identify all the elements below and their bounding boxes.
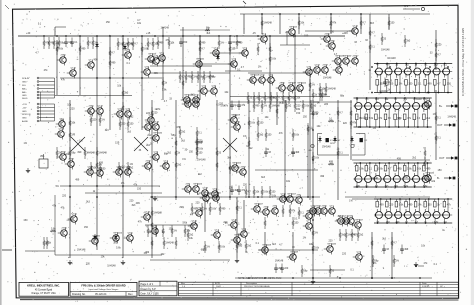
- node N8: [409, 92, 411, 94]
- capacitor C6: [280, 264, 289, 274]
- svg-text:Q136: Q136: [235, 122, 241, 124]
- wire: [150, 65, 212, 67]
- resistor R161: [109, 57, 116, 69]
- wire bus: [354, 105, 432, 107]
- label: [388, 89, 391, 92]
- resistor R58: [258, 92, 265, 104]
- resistor R136: [321, 89, 328, 101]
- svg-text:1N4148: 1N4148: [197, 158, 206, 161]
- svg-text:BAL-: BAL-: [22, 91, 27, 94]
- label: [413, 98, 422, 101]
- resistor R70: [196, 143, 204, 155]
- svg-text:499: 499: [404, 248, 409, 251]
- transistor Q52: [150, 122, 160, 133]
- wire: [141, 36, 143, 130]
- svg-text:5.6k: 5.6k: [369, 117, 374, 120]
- resistor R111: [43, 237, 50, 249]
- resistor R195: [292, 217, 299, 229]
- svg-text:150: 150: [304, 35, 309, 38]
- label: [71, 108, 76, 111]
- resistor R117: [328, 118, 334, 123]
- label: [442, 229, 445, 232]
- resistor R164: [141, 43, 149, 55]
- svg-text:150: 150: [271, 191, 276, 194]
- wire: [229, 36, 231, 200]
- resistor R56: [247, 92, 253, 104]
- svg-text:220: 220: [92, 119, 97, 122]
- resistor R34: [48, 37, 55, 49]
- wire: [243, 14, 245, 34]
- svg-text:150: 150: [137, 187, 142, 190]
- node N18: [359, 126, 361, 128]
- svg-text:150: 150: [404, 176, 409, 179]
- resistor R92: [179, 126, 186, 138]
- wire: [280, 44, 310, 46]
- label: [77, 249, 86, 252]
- svg-text:499: 499: [193, 208, 198, 211]
- wire: [199, 63, 234, 65]
- svg-text:5.6k: 5.6k: [211, 208, 216, 211]
- terminal dot: [415, 265, 424, 267]
- capacitor C4: [228, 38, 241, 48]
- node N64: [447, 198, 449, 200]
- label: [44, 69, 49, 72]
- resistor R128: [175, 137, 177, 149]
- wire: [258, 249, 318, 251]
- svg-text:1N4148: 1N4148: [271, 105, 280, 108]
- node N21: [375, 97, 377, 99]
- resistor R121: [196, 127, 203, 139]
- wire: [405, 163, 409, 187]
- wire: [424, 98, 428, 127]
- node N32: [427, 126, 429, 128]
- transistor Q128: [404, 212, 411, 219]
- transistor Q9: [193, 58, 205, 70]
- node N29: [414, 97, 416, 99]
- transistor Q120: [384, 176, 391, 183]
- svg-text:5/18/95: 5/18/95: [422, 286, 430, 288]
- svg-text:220: 220: [62, 195, 67, 198]
- node N46: [417, 162, 419, 164]
- wire crossover: [134, 137, 148, 151]
- svg-text:220: 220: [243, 184, 248, 187]
- node N30: [417, 126, 419, 128]
- label: [292, 88, 297, 91]
- svg-text:499: 499: [398, 168, 403, 171]
- wire: [279, 14, 281, 34]
- resistor R132: [269, 43, 271, 55]
- resistor R173: [151, 107, 158, 119]
- svg-text:MPSA27: MPSA27: [255, 203, 264, 206]
- resistor R108: [357, 229, 364, 241]
- wire: [366, 163, 370, 187]
- transistor Q97: [335, 216, 345, 227]
- wire: [369, 14, 371, 90]
- label: [386, 221, 391, 224]
- transistor Q36: [55, 129, 65, 140]
- label: [94, 59, 99, 62]
- transistor Q103: [395, 68, 402, 75]
- svg-text:5.6k: 5.6k: [399, 204, 404, 207]
- svg-text:Description: Description: [246, 282, 258, 285]
- resistor R23: [413, 163, 422, 171]
- resistor R98: [218, 241, 226, 253]
- transistor Q62: [237, 167, 247, 178]
- svg-text:Q124: Q124: [353, 26, 359, 28]
- label: [206, 200, 209, 203]
- node N106: [391, 277, 393, 279]
- node N5: [396, 63, 398, 65]
- node N74: [269, 35, 271, 37]
- label: [130, 116, 135, 119]
- resistor R13: [394, 114, 402, 127]
- node N130: [371, 277, 373, 279]
- label: [415, 63, 418, 66]
- transistor Q118: [365, 176, 372, 183]
- transistor Q76: [260, 207, 270, 218]
- label: [191, 94, 196, 97]
- transistor Q42: [65, 159, 75, 170]
- node N101: [264, 277, 266, 279]
- svg-text:3k3: 3k3: [105, 129, 110, 132]
- svg-text:150: 150: [68, 219, 73, 222]
- svg-text:68p: 68p: [71, 152, 76, 155]
- label: [413, 185, 416, 188]
- node N45: [414, 186, 416, 188]
- node N14: [438, 92, 440, 94]
- label: [225, 222, 228, 225]
- svg-text:1N4148: 1N4148: [275, 260, 284, 263]
- resistor R177: [369, 27, 376, 39]
- svg-text:150: 150: [183, 41, 188, 44]
- wire: [435, 90, 437, 160]
- wire: [357, 163, 361, 187]
- label: [146, 112, 151, 115]
- capacitor C12: [230, 101, 237, 111]
- node N126: [298, 13, 300, 15]
- svg-text:SPKR IN: SPKR IN: [22, 114, 31, 116]
- wire: [204, 200, 206, 232]
- label: [196, 201, 201, 204]
- resistor R37: [87, 37, 94, 49]
- label: [65, 153, 70, 156]
- svg-text:RCA IN: RCA IN: [22, 77, 29, 80]
- wire bus: [354, 162, 432, 164]
- transistor Q11: [239, 48, 249, 59]
- resistor R88: [90, 162, 97, 174]
- label: [216, 103, 220, 106]
- transistor Q60: [228, 114, 241, 126]
- svg-text:499: 499: [111, 62, 116, 65]
- capacitor C8: [400, 245, 409, 255]
- node N93: [151, 196, 153, 198]
- wire: [444, 199, 448, 223]
- node N23: [385, 97, 387, 99]
- svg-text:499: 499: [296, 108, 301, 111]
- diode D7: [93, 234, 96, 241]
- svg-text:5.6k: 5.6k: [162, 88, 167, 91]
- svg-text:2k2: 2k2: [177, 164, 182, 167]
- resistor R145: [312, 242, 320, 254]
- resistor R160: [109, 47, 116, 59]
- svg-text:499: 499: [320, 175, 325, 178]
- node N9: [415, 63, 417, 65]
- svg-text:499: 499: [81, 48, 86, 51]
- label: [303, 115, 308, 118]
- svg-text:5.6k: 5.6k: [51, 228, 56, 231]
- svg-text:3k3: 3k3: [181, 140, 186, 143]
- node N122: [284, 196, 286, 198]
- svg-text:1N4148: 1N4148: [381, 48, 390, 51]
- svg-text:5.6k: 5.6k: [198, 148, 203, 151]
- svg-text:150: 150: [447, 83, 452, 86]
- label: [423, 185, 428, 188]
- resistor R6: [424, 80, 432, 93]
- wire: [405, 98, 409, 127]
- transistor Q35: [56, 119, 66, 130]
- transistor Q79: [228, 220, 238, 231]
- svg-text:SIG: SIG: [22, 85, 26, 87]
- svg-text:3k3: 3k3: [191, 94, 196, 97]
- label: [298, 90, 301, 93]
- wire: [357, 98, 361, 127]
- label: [143, 252, 147, 255]
- resistor R69: [196, 135, 203, 147]
- svg-text:2k2: 2k2: [412, 157, 417, 160]
- resistor R40: [122, 38, 134, 50]
- svg-text:499: 499: [94, 59, 99, 62]
- capacitor C2: [70, 38, 78, 48]
- label: [137, 187, 142, 190]
- label: [93, 190, 96, 193]
- resistor R27: [395, 199, 404, 207]
- transistor Q90: [353, 252, 363, 263]
- svg-text:MPSA8: MPSA8: [291, 251, 299, 254]
- wire: [25, 250, 55, 252]
- node N62: [438, 198, 440, 200]
- transistor Q75: [251, 203, 264, 215]
- svg-text:220: 220: [65, 153, 70, 156]
- node N49: [377, 222, 379, 224]
- resistor R191: [282, 205, 284, 217]
- resistor R26: [386, 199, 394, 207]
- label: [55, 185, 59, 188]
- capacitor C5: [274, 264, 283, 274]
- label: [122, 166, 126, 169]
- transistor Q61: [231, 122, 241, 133]
- svg-text:Drawn by S.P: Drawn by S.P: [141, 288, 157, 291]
- svg-text:LED: LED: [308, 150, 312, 152]
- node N31: [423, 97, 425, 99]
- label: [107, 264, 116, 267]
- connector pin J10: [22, 110, 55, 113]
- svg-text:150: 150: [259, 122, 264, 125]
- svg-text:220: 220: [437, 44, 442, 47]
- node N58: [418, 198, 420, 200]
- label: [279, 244, 283, 247]
- transistor Q73: [284, 193, 297, 205]
- resistor R75: [269, 100, 281, 112]
- wire: [377, 199, 381, 223]
- label: [195, 141, 204, 144]
- svg-text:MPSA7: MPSA7: [289, 82, 297, 85]
- svg-text:150: 150: [267, 134, 272, 137]
- label: [385, 185, 390, 188]
- node N117: [96, 185, 98, 187]
- resistor R142: [312, 107, 319, 119]
- wire: [150, 196, 320, 198]
- svg-text:MPSA53: MPSA53: [233, 162, 242, 165]
- label: [249, 80, 254, 83]
- label: [349, 200, 353, 203]
- node N57: [415, 222, 417, 224]
- svg-text:5.6k: 5.6k: [220, 246, 225, 249]
- resistor R4: [405, 80, 413, 93]
- transistor Q49: [145, 115, 155, 126]
- wire: [69, 100, 71, 258]
- resistor R140: [248, 137, 250, 149]
- svg-text:MPSA19: MPSA19: [251, 74, 260, 77]
- transistor Q69: [110, 232, 123, 244]
- transistor Q18: [276, 83, 286, 94]
- resistor R68: [325, 83, 337, 95]
- resistor R35: [53, 37, 60, 49]
- svg-text:AGND: AGND: [22, 120, 29, 123]
- wire: [312, 100, 314, 278]
- resistor R171: [122, 87, 129, 99]
- svg-text:Rev.: Rev.: [128, 293, 133, 296]
- label: [376, 63, 380, 66]
- svg-text:5.6k: 5.6k: [58, 48, 63, 51]
- svg-text:68p: 68p: [303, 270, 308, 273]
- capacitor C9: [383, 78, 390, 88]
- node N63: [444, 222, 446, 224]
- label: [354, 41, 357, 44]
- revision table: [179, 282, 459, 296]
- resistor R21: [394, 163, 402, 171]
- svg-text:GND: GND: [22, 95, 27, 97]
- svg-text:499: 499: [77, 151, 82, 154]
- svg-text:2N34: 2N34: [353, 56, 359, 58]
- transistor Q38: [94, 106, 104, 117]
- transistor Q126: [385, 212, 392, 219]
- svg-text:5.6k: 5.6k: [359, 168, 364, 171]
- transistor Q10: [210, 48, 220, 59]
- svg-text:150: 150: [198, 152, 203, 155]
- node N72: [199, 35, 201, 37]
- node N39: [385, 186, 387, 188]
- resistor R10: [365, 114, 374, 127]
- wire: [150, 259, 230, 261]
- label: [397, 117, 402, 120]
- wire: [162, 27, 164, 100]
- svg-text:+40: +40: [26, 32, 31, 35]
- wire bus: [354, 126, 432, 128]
- transistor Q5: [141, 67, 151, 78]
- label: [137, 19, 141, 22]
- wire: [151, 100, 153, 258]
- wire: [406, 199, 410, 223]
- resistor R15: [413, 114, 421, 127]
- wire: [248, 72, 310, 74]
- wire: [396, 64, 400, 93]
- label: [376, 221, 379, 224]
- svg-text:220: 220: [223, 221, 228, 224]
- transistor Q22: [198, 86, 208, 97]
- label: [35, 52, 39, 55]
- resistor R33: [43, 37, 50, 49]
- transistor Q92: [422, 172, 435, 184]
- label: [265, 116, 270, 119]
- wire bus: [374, 198, 452, 200]
- svg-text:Date JULY 1995: Date JULY 1995: [141, 293, 160, 296]
- svg-text:Q123: Q123: [145, 212, 151, 214]
- wire: [216, 100, 218, 200]
- label: [431, 180, 436, 183]
- label: [394, 98, 397, 101]
- node N22: [379, 126, 381, 128]
- ground: [121, 260, 125, 265]
- connector pin J7: [22, 97, 55, 100]
- resistor R67: [319, 83, 326, 95]
- connector pin J2: [22, 81, 55, 84]
- transistor Q109: [355, 103, 362, 110]
- transistor Q68: [89, 235, 101, 247]
- resistor R157: [162, 225, 164, 237]
- transistor Q43: [84, 167, 94, 178]
- resistor R133: [269, 53, 277, 65]
- resistor R38: [92, 37, 99, 49]
- label: [405, 63, 410, 66]
- wire: [55, 95, 132, 97]
- svg-text:1N4148: 1N4148: [195, 141, 204, 144]
- svg-text:499: 499: [234, 189, 239, 192]
- svg-text:1N4148: 1N4148: [387, 57, 396, 60]
- node N52: [390, 198, 392, 200]
- node N82: [257, 35, 259, 37]
- transistor Q91: [422, 99, 432, 110]
- net label +40: [26, 32, 31, 35]
- svg-text:-15V: -15V: [22, 108, 27, 110]
- svg-text:150: 150: [189, 150, 194, 153]
- resistor R124: [307, 123, 314, 135]
- svg-text:150: 150: [106, 21, 111, 24]
- resistor R192: [289, 205, 296, 217]
- transistor Q47: [142, 122, 152, 133]
- wire: [396, 199, 400, 223]
- svg-text:499: 499: [75, 178, 80, 181]
- transistor Q6: [145, 53, 157, 65]
- ground: [311, 279, 315, 284]
- label: [427, 71, 432, 74]
- diode D5: [333, 136, 336, 143]
- svg-text:Q126: Q126: [232, 220, 238, 222]
- transistor Q121: [393, 176, 400, 183]
- transistor Q50: [182, 99, 192, 110]
- svg-text:2N31: 2N31: [322, 206, 328, 208]
- transistor Q34: [333, 65, 343, 76]
- diode D4: [318, 136, 321, 143]
- label: [243, 184, 248, 187]
- transistor Q67: [124, 233, 134, 244]
- svg-text:Drawing No.: Drawing No.: [72, 293, 86, 296]
- svg-text:Orange, CT 06477 USA: Orange, CT 06477 USA: [31, 292, 56, 295]
- svg-text:68p: 68p: [206, 27, 211, 30]
- resistor R180: [360, 17, 367, 29]
- resistor R2: [386, 80, 394, 93]
- svg-text:MPSA3: MPSA3: [290, 26, 298, 29]
- resistor R187: [163, 237, 175, 249]
